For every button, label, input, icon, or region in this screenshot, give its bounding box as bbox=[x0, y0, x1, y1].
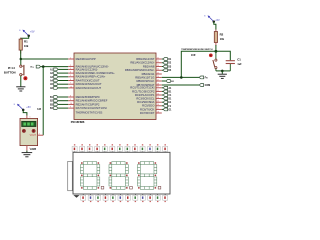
terminal A3 (RA3) bbox=[54, 75, 58, 78]
svg-text:17: 17 bbox=[157, 108, 159, 110]
svg-text:PIC16F886: PIC16F886 bbox=[71, 120, 85, 124]
wire RC3 bbox=[162, 98, 163, 100]
terminal A1 (segment) bbox=[163, 86, 167, 89]
wire RC0 bbox=[162, 87, 163, 89]
terminal B1 (segment) bbox=[163, 90, 167, 93]
wire node to C1 bbox=[216, 51, 230, 60]
svg-text:RB5/AN13/T1G: RB5/AN13/T1G bbox=[135, 75, 154, 79]
svg-text:26: 26 bbox=[157, 76, 159, 78]
junction ground rail bbox=[221, 70, 224, 73]
wire RB0 bbox=[162, 58, 163, 60]
digit 1 bbox=[80, 162, 99, 190]
svg-text:+5V: +5V bbox=[215, 19, 220, 22]
svg-text:1uF: 1uF bbox=[237, 63, 242, 66]
terminal D3 bbox=[163, 65, 167, 68]
terminal D2 bbox=[163, 61, 167, 64]
ground (right) bbox=[218, 74, 227, 78]
decimal point 2 bbox=[130, 186, 133, 189]
svg-text:22: 22 bbox=[157, 61, 159, 63]
wire R2 bottom bbox=[215, 45, 217, 51]
U2 bottom pin bbox=[26, 146, 28, 151]
terminal A2 (RA2) bbox=[54, 72, 58, 75]
wire RE3 bbox=[58, 107, 68, 109]
U2 VOUT pin bbox=[38, 134, 44, 136]
ground (sensor) bbox=[22, 153, 33, 157]
digit 3 bbox=[137, 162, 156, 190]
wire RC6 bbox=[162, 108, 163, 110]
R2 top pin bbox=[215, 30, 217, 32]
svg-text:18: 18 bbox=[157, 111, 159, 113]
svg-text:27: 27 bbox=[157, 79, 159, 81]
wire power to R1 bbox=[21, 36, 29, 39]
wire RE2 bbox=[58, 103, 68, 105]
display side tab bbox=[68, 161, 73, 190]
terminal D1 bbox=[163, 58, 167, 61]
svg-text:RA1/AN1/C12IN1-: RA1/AN1/C12IN1- bbox=[76, 67, 99, 71]
wire RA1 bbox=[58, 68, 68, 70]
terminal B1 (RE0) bbox=[54, 96, 58, 99]
wire RA6 bbox=[58, 87, 68, 89]
svg-text:BUTTON: BUTTON bbox=[4, 70, 16, 74]
wire COM net (RB7) bbox=[162, 84, 199, 86]
terminal Fn bbox=[199, 76, 203, 79]
svg-text:13: 13 bbox=[157, 93, 159, 95]
power terminal +5V (right) bbox=[204, 15, 220, 22]
terminal B4 (RE3) bbox=[54, 107, 58, 110]
svg-text:RE1/AN6/WR/OC/CBREF: RE1/AN6/WR/OC/CBREF bbox=[76, 99, 108, 103]
terminal A6 (RA6) bbox=[54, 87, 58, 90]
terminal C1 (segment) bbox=[163, 94, 167, 97]
wire RB2 bbox=[162, 66, 163, 68]
svg-text:RC6/TX/CK: RC6/TX/CK bbox=[140, 107, 155, 111]
wire RA2 bbox=[58, 72, 68, 74]
svg-text:RE3/MCLR/VPP: RE3/MCLR/VPP bbox=[76, 57, 96, 61]
svg-text:RA3/AN3/VREF+/C1IN+: RA3/AN3/VREF+/C1IN+ bbox=[76, 75, 106, 79]
svg-text:8: 8 bbox=[70, 95, 71, 97]
svg-text:1: 1 bbox=[30, 116, 31, 118]
power terminal +5V (top-left) bbox=[19, 30, 35, 37]
junction RA0/sensor bbox=[42, 65, 45, 68]
wire RC5 bbox=[162, 105, 163, 107]
svg-text:3: 3 bbox=[70, 68, 71, 70]
terminal A5 (RA5) bbox=[54, 83, 58, 86]
svg-text:9: 9 bbox=[70, 107, 71, 109]
svg-text:10k: 10k bbox=[24, 44, 29, 48]
decimal point 3 bbox=[158, 186, 161, 189]
svg-text:2: 2 bbox=[70, 65, 71, 67]
wire RA4 bbox=[58, 80, 68, 82]
terminal E1 (segment) bbox=[163, 101, 167, 104]
wire Fn net (RB5) bbox=[162, 76, 199, 78]
svg-text:24: 24 bbox=[157, 69, 159, 71]
svg-text:12: 12 bbox=[157, 90, 159, 92]
decimal point 1 bbox=[101, 186, 104, 189]
wire RE1 bbox=[58, 100, 68, 102]
svg-text:16: 16 bbox=[157, 104, 159, 106]
U2 top pin bbox=[26, 116, 28, 119]
ground (button) bbox=[16, 87, 25, 91]
svg-text:7: 7 bbox=[70, 83, 71, 85]
svg-text:RA5/AN4/SS/C2OUT: RA5/AN4/SS/C2OUT bbox=[76, 82, 102, 86]
wire to ground rail bbox=[216, 70, 230, 72]
U1 right pins bbox=[125, 57, 162, 115]
svg-text:THERMOSTAT/CVSS: THERMOSTAT/CVSS bbox=[76, 110, 103, 114]
svg-text:TEMPERATURE MODE SWITCH: TEMPERATURE MODE SWITCH bbox=[181, 48, 213, 51]
terminal F1 (segment) bbox=[163, 104, 167, 107]
junction Fn/switch node bbox=[180, 76, 183, 79]
terminal Vo+ (RA0 net) bbox=[36, 65, 40, 68]
svg-text:RE2/AN7/CS/PSP2: RE2/AN7/CS/PSP2 bbox=[76, 102, 100, 106]
wire ground stub bbox=[221, 71, 223, 74]
svg-text:11: 11 bbox=[157, 86, 159, 88]
switch SW1 C/F bbox=[209, 51, 217, 71]
wire node to Fn bbox=[181, 51, 216, 77]
display DS1 7SEG-MPX3 body bbox=[73, 152, 170, 194]
terminal B2 (RE1) bbox=[54, 99, 58, 102]
svg-text:9: 9 bbox=[70, 99, 71, 101]
wire sensor VOUT vertical bbox=[42, 67, 44, 136]
svg-text:U2: U2 bbox=[37, 107, 41, 111]
sensor U2 LM35 bbox=[20, 118, 38, 145]
svg-text:C/F: C/F bbox=[191, 53, 196, 57]
svg-text:RC4/SDI/SDA: RC4/SDI/SDA bbox=[137, 100, 154, 104]
display bottom pins bbox=[73, 194, 167, 202]
terminal B3 (RE2) bbox=[54, 103, 58, 106]
svg-text:10k: 10k bbox=[220, 38, 225, 41]
svg-text:10: 10 bbox=[70, 86, 72, 88]
svg-text:RC2/P1A/CCP1: RC2/P1A/CCP1 bbox=[135, 93, 155, 97]
svg-text:4: 4 bbox=[70, 72, 71, 74]
svg-text:23: 23 bbox=[157, 65, 159, 67]
svg-text:LM35: LM35 bbox=[30, 148, 37, 151]
svg-text:VOUT: VOUT bbox=[30, 135, 37, 137]
svg-text:COM: COM bbox=[205, 84, 211, 87]
svg-text:RB6/ICSPCLK: RB6/ICSPCLK bbox=[137, 79, 155, 83]
wire RA3 bbox=[58, 76, 68, 78]
digit 2 bbox=[109, 162, 128, 190]
terminal A1 (RA1) bbox=[54, 68, 58, 71]
svg-text:R1: R1 bbox=[24, 40, 28, 44]
terminal COM bbox=[199, 84, 203, 87]
wire RC4 bbox=[162, 101, 163, 103]
svg-text:21: 21 bbox=[157, 57, 159, 59]
terminal G1 (segment) bbox=[163, 108, 167, 111]
wire RC1 bbox=[162, 90, 163, 92]
svg-text:RB0/AN12/INT: RB0/AN12/INT bbox=[136, 57, 155, 61]
terminal B1 bbox=[166, 80, 170, 83]
svg-text:RB4/AN11: RB4/AN11 bbox=[142, 72, 155, 76]
svg-text:RC1/T1OSI/CCP2: RC1/T1OSI/CCP2 bbox=[132, 89, 155, 93]
wire power to R2 bbox=[214, 22, 216, 30]
wire RE0 bbox=[58, 96, 68, 98]
svg-text:C1: C1 bbox=[237, 58, 241, 62]
svg-text:RB3/AN9/PGM/C12IN2-: RB3/AN9/PGM/C12IN2- bbox=[125, 68, 155, 72]
wire MCLR net to U1 pin 1 bbox=[21, 58, 68, 60]
display top pins bbox=[72, 144, 168, 152]
svg-text:RC0/T1OSO/T1CKI: RC0/T1OSO/T1CKI bbox=[130, 86, 154, 90]
resistor R1 bbox=[19, 39, 22, 50]
wire power to U2 bbox=[23, 110, 27, 116]
button (reset) bbox=[20, 59, 28, 87]
svg-text:6: 6 bbox=[70, 79, 71, 81]
svg-text:RC3/SCK/SCL: RC3/SCK/SCL bbox=[136, 97, 155, 101]
svg-text:RA6/OSC2/CLKOUT: RA6/OSC2/CLKOUT bbox=[76, 86, 102, 90]
wire RC2 bbox=[162, 94, 163, 96]
op: microcontroller U1 PIC16F886 bbox=[74, 53, 156, 120]
svg-text:RA2/AN2/VREF-/CVREF/C2IN+: RA2/AN2/VREF-/CVREF/C2IN+ bbox=[76, 71, 116, 75]
power terminal +5V (sensor) bbox=[14, 104, 31, 111]
svg-text:14: 14 bbox=[157, 97, 159, 99]
svg-text:R2: R2 bbox=[220, 32, 224, 36]
svg-text:28: 28 bbox=[157, 83, 159, 85]
terminal A4 (RA4) bbox=[54, 79, 58, 82]
svg-text:25: 25 bbox=[157, 72, 159, 74]
terminal D4 bbox=[163, 69, 167, 72]
svg-text:RA7/OSC1/CLKIN/T1OSI: RA7/OSC1/CLKIN/T1OSI bbox=[76, 106, 107, 110]
svg-text:15: 15 bbox=[157, 101, 159, 103]
R2 bottom pin bbox=[215, 43, 217, 46]
capacitor C1 bbox=[226, 61, 235, 71]
svg-text:RE0/AN5/RD/PSP0: RE0/AN5/RD/PSP0 bbox=[76, 95, 100, 99]
R1 bottom pin bbox=[20, 50, 22, 54]
wire R1 bottom bbox=[20, 50, 22, 59]
wire RB6 bbox=[162, 80, 166, 82]
resistor R2 bbox=[214, 32, 217, 43]
wire U2 to ground bbox=[26, 151, 28, 153]
junction R1/button/MCLR bbox=[20, 58, 23, 61]
svg-text:RB2/AN8: RB2/AN8 bbox=[143, 64, 155, 68]
svg-text:RA4/T0CKI/C1OUT: RA4/T0CKI/C1OUT bbox=[76, 78, 100, 82]
wire RA0 net bbox=[41, 66, 69, 68]
svg-text:RC5/SDO: RC5/SDO bbox=[142, 104, 154, 108]
wire RB1 bbox=[162, 62, 163, 64]
svg-text:RC7/RX/DT: RC7/RX/DT bbox=[140, 111, 155, 115]
terminal D1 (segment) bbox=[163, 97, 167, 100]
svg-text:+5V: +5V bbox=[30, 30, 35, 33]
R1 top pin bbox=[20, 38, 22, 39]
svg-text:1: 1 bbox=[70, 57, 71, 59]
svg-text:RB1/AN10/C12IN3-: RB1/AN10/C12IN3- bbox=[130, 61, 154, 65]
svg-text:10: 10 bbox=[70, 103, 72, 105]
svg-text:+5V: +5V bbox=[26, 106, 31, 109]
wire RB3 bbox=[162, 69, 163, 71]
junction switch node bbox=[214, 50, 217, 53]
svg-text:5: 5 bbox=[70, 75, 71, 77]
wire RA5 bbox=[58, 83, 68, 85]
